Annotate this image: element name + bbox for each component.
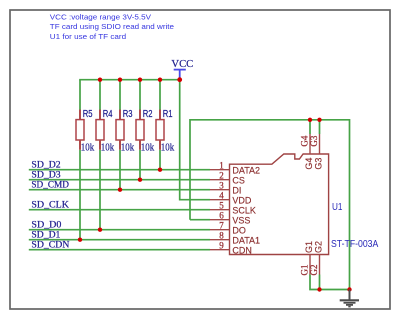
pin 4 VDD [210,191,252,206]
wire net SD_D3 [29,179,210,181]
svg-text:9: 9 [219,241,224,251]
svg-text:TF card using SDIO read and wr: TF card using SDIO read and write [50,22,174,31]
svg-text:SD_D0: SD_D0 [31,220,62,230]
ground symbol [340,290,359,307]
junction R1 to SD_D2 [158,168,162,172]
svg-text:G2: G2 [309,265,319,276]
wire R2 column upper [139,80,141,110]
pin 3 DI [210,181,242,196]
pin 9 CDN [210,241,252,256]
connector U1 body [230,154,329,255]
svg-text:2: 2 [219,171,224,181]
svg-text:5: 5 [219,201,224,211]
svg-text:10k: 10k [121,143,134,154]
pin 1 DATA2 [210,161,260,176]
svg-text:CS: CS [232,175,245,185]
svg-text:1: 1 [219,161,224,171]
svg-text:VCC :voltage range 3V-5.5V: VCC :voltage range 3V-5.5V [50,13,151,22]
junction R4 to SD_D0 [98,228,102,232]
svg-text:R5: R5 [83,109,93,120]
svg-text:R1: R1 [163,109,173,120]
junction on VCC rail at R1 [158,78,162,82]
pin 5 SCLK [210,201,256,216]
wire R1 column upper [159,80,161,110]
junction on VCC rail at R3 [118,78,122,82]
junction G3 on GND rail [317,118,321,122]
svg-text:SD_D2: SD_D2 [31,160,60,170]
wire net SD_CDN [29,249,210,251]
svg-text:VDD: VDD [232,195,252,205]
resistor R2 [136,109,154,154]
wire VCC feed to VDD pin 4 [180,80,210,200]
svg-text:G1: G1 [299,265,309,276]
svg-text:DATA1: DATA1 [232,235,260,245]
power symbol VCC [171,59,193,80]
junction R5 to SD_D1 [78,238,82,242]
svg-text:G1: G1 [304,241,314,253]
junction R3 to SD_CMD [118,188,122,192]
svg-text:SD_CMD: SD_CMD [31,180,69,190]
wire R5 column upper [79,80,81,110]
junction R2 to SD_D3 [138,178,142,182]
svg-text:U1: U1 [332,201,343,213]
pin G2 bottom [309,241,324,276]
pin G4 top [299,134,314,170]
pin 8 DATA1 [210,231,260,246]
wire G2 pin to bottom gnd [319,275,321,290]
pin G1 bottom [299,241,314,276]
svg-text:SD_CDN: SD_CDN [31,240,70,250]
svg-text:G4: G4 [299,135,309,146]
wire GND rail [190,120,350,290]
svg-text:G3: G3 [313,158,323,170]
wire net SD_D1 [29,239,210,241]
junction at VCC symbol [177,77,182,82]
svg-text:7: 7 [219,221,224,231]
svg-text:8: 8 [219,231,224,241]
svg-text:10k: 10k [141,143,154,154]
pin 7 DO [210,221,246,236]
resistor R4 [96,109,114,154]
junction G4 on GND rail [308,118,312,122]
svg-text:R3: R3 [123,109,133,120]
svg-text:DO: DO [232,225,246,235]
svg-text:CDN: CDN [232,245,252,255]
wire R1 column lower [159,150,161,170]
svg-text:DI: DI [232,185,241,195]
svg-text:R4: R4 [103,109,113,120]
svg-text:10k: 10k [101,143,114,154]
svg-text:VSS: VSS [232,215,250,225]
pin 2 CS [210,171,245,186]
svg-text:ST-TF-003A: ST-TF-003A [331,238,378,250]
svg-text:G3: G3 [309,135,319,146]
wire net SD_CLK [29,209,210,211]
svg-text:G4: G4 [304,158,314,170]
svg-text:3: 3 [219,181,224,191]
wire R4 column upper [99,80,101,110]
wire net SD_D2 [29,169,210,171]
svg-text:10k: 10k [161,143,174,154]
svg-text:SD_D1: SD_D1 [31,230,60,240]
junction G2 on bottom gnd wire [317,287,321,291]
wire R3 column upper [119,80,121,110]
wire R5 column lower [79,150,81,240]
resistor R1 [156,109,174,154]
junction on VCC rail at R4 [98,78,102,82]
wire net SD_D0 [29,229,210,231]
resistor R3 [116,109,134,154]
svg-text:SCLK: SCLK [232,205,256,215]
pin 6 VSS [210,211,251,226]
svg-text:SD_D3: SD_D3 [31,170,61,180]
wire net SD_CMD [29,189,210,191]
junction on VCC rail at R2 [138,78,142,82]
junction at ground symbol [347,287,351,291]
resistor R5 [76,109,94,154]
wire G1 pin to bottom gnd [310,275,350,290]
wire VSS pin 6 stub [190,219,210,221]
wire G3 pin to GND rail [319,120,321,134]
pin G3 top [309,134,324,170]
svg-text:4: 4 [219,191,224,201]
wire VCC top rail [79,79,180,81]
svg-text:VCC: VCC [171,59,193,70]
wire R4 column lower [99,150,101,230]
svg-text:G2: G2 [313,241,323,253]
wire R2 column lower [139,150,141,180]
svg-text:U1 for use of TF card: U1 for use of TF card [50,32,126,41]
svg-text:R2: R2 [143,109,153,120]
svg-text:6: 6 [219,211,224,221]
wire G4 pin to GND rail [309,120,311,134]
svg-text:DATA2: DATA2 [232,165,260,175]
wire R3 column lower [119,150,121,190]
svg-text:10k: 10k [81,143,94,154]
svg-text:SD_CLK: SD_CLK [31,200,69,210]
